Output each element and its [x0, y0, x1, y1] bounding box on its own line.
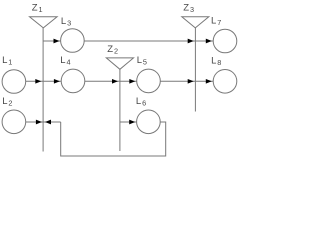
svg-text:L8: L8	[211, 55, 221, 67]
svg-text:L3: L3	[61, 16, 71, 28]
svg-text:L2: L2	[2, 96, 12, 108]
svg-text:L5: L5	[137, 55, 147, 66]
svg-text:L1: L1	[2, 55, 12, 67]
svg-text:L7: L7	[211, 15, 221, 27]
svg-text:L6: L6	[136, 96, 146, 108]
svg-text:Z2: Z2	[107, 44, 118, 56]
svg-text:L4: L4	[60, 55, 70, 67]
svg-text:Z3: Z3	[183, 3, 194, 15]
svg-text:Z1: Z1	[32, 3, 43, 15]
